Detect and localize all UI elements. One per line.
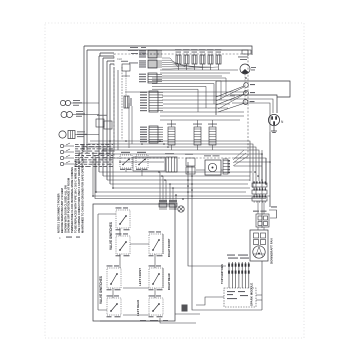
wire	[234, 165, 262, 167]
wire	[71, 102, 99, 104]
wire	[152, 84, 214, 104]
wire	[218, 95, 243, 109]
svg-text:RIGHT REAR: RIGHT REAR	[167, 273, 171, 290]
connector P4	[223, 159, 230, 174]
clock crystal Y1	[121, 61, 130, 76]
oven sensor RT1	[204, 155, 221, 175]
wire	[86, 50, 88, 153]
wire	[152, 89, 198, 112]
wire	[99, 56, 114, 172]
wire	[125, 91, 246, 93]
valve box	[93, 204, 175, 321]
wire	[95, 155, 266, 199]
svg-text:VALVE SWITCHES: VALVE SWITCHES	[99, 276, 103, 304]
wire	[160, 111, 244, 113]
wire	[86, 147, 256, 195]
wire	[100, 314, 200, 323]
wire	[215, 81, 217, 115]
wire	[117, 70, 119, 150]
wire	[256, 295, 262, 300]
labels	[128, 47, 146, 63]
wire	[216, 86, 244, 97]
power plug N	[268, 114, 284, 125]
wire	[196, 169, 223, 171]
wire	[261, 150, 263, 183]
svg-text:MAINTAINED TO CHASSIS GROUND F: MAINTAINED TO CHASSIS GROUND FOR SAFE OP…	[80, 144, 84, 233]
relay contacts K1-K3	[243, 74, 255, 104]
wire	[152, 78, 226, 96]
wire	[87, 50, 248, 56]
wire	[133, 157, 165, 171]
oven light L2	[59, 131, 87, 139]
junctions	[92, 77, 271, 200]
wire	[163, 107, 228, 109]
wire	[121, 67, 123, 140]
wire	[93, 152, 270, 196]
wire	[216, 94, 244, 105]
wire	[196, 297, 224, 305]
grommet	[182, 305, 188, 312]
terminal block TB2	[96, 115, 112, 129]
wire	[107, 179, 250, 181]
svg-text:SPARK MODULE: SPARK MODULE	[250, 283, 254, 306]
relay coils K1-K3	[167, 120, 217, 150]
spark module A2	[224, 283, 256, 307]
surface switch S11 S12	[120, 152, 148, 170]
svg-text:RIGHT FRONT: RIGHT FRONT	[167, 238, 171, 257]
wire	[163, 103, 230, 105]
connector P6 P7	[159, 200, 177, 211]
svg-text:DOWNDRAFT FAN: DOWNDRAFT FAN	[270, 238, 274, 264]
wire	[103, 58, 114, 176]
svg-text:TO BE REPLACED WITH TYPE 150 C: TO BE REPLACED WITH TYPE 150 C 105 C WIR…	[74, 159, 78, 233]
svg-text:TOP IGNITORS: TOP IGNITORS	[220, 264, 224, 284]
svg-text:SHOWN WITH DOOR CLOSED ALL SW: SHOWN WITH DOOR CLOSED ALL SW	[63, 185, 67, 233]
wire	[103, 175, 250, 177]
wire	[73, 114, 100, 116]
wire	[110, 183, 248, 185]
wire	[110, 64, 114, 184]
right rear label	[167, 273, 171, 290]
wire	[230, 95, 277, 113]
wire	[100, 53, 114, 56]
wire	[160, 119, 240, 121]
wire	[258, 201, 264, 230]
svg-text:BEFORE SERVICING UNIT 2 SCHEM: BEFORE SERVICING UNIT 2 SCHEM	[60, 188, 64, 233]
wire	[152, 86, 206, 108]
wire	[216, 87, 244, 101]
valve switches label	[99, 222, 113, 304]
wire	[120, 161, 270, 163]
wire	[160, 115, 244, 117]
right front label	[167, 238, 171, 257]
wire	[99, 158, 266, 183]
wire	[216, 81, 290, 97]
wire	[126, 168, 142, 176]
svg-text:TEMPERATURE CLOCK IN NORMAL MO: TEMPERATURE CLOCK IN NORMAL MODE 3 WIRIN…	[70, 167, 74, 233]
left front label	[138, 268, 142, 286]
downdraft fan B1	[250, 230, 274, 264]
svg-text:LEFT FRONT: LEFT FRONT	[138, 268, 142, 286]
wire	[192, 166, 262, 310]
wire	[125, 76, 127, 96]
resistor R1	[124, 96, 132, 108]
spark ignitors E1-E4	[220, 255, 250, 289]
control board A1	[114, 54, 248, 158]
svg-text:SHOWN IN OFF POSITION RANGE AT: SHOWN IN OFF POSITION RANGE AT ROOM	[67, 178, 71, 233]
wire	[152, 81, 221, 100]
wire	[96, 158, 246, 192]
svg-text:CLK: CLK	[117, 57, 122, 61]
wire	[265, 158, 267, 183]
wire	[113, 150, 250, 188]
notes text	[57, 144, 85, 240]
wire	[162, 75, 222, 77]
wire	[75, 134, 99, 136]
wire	[162, 99, 232, 101]
keyboard switch row S1-S6	[175, 49, 222, 70]
wire	[232, 103, 270, 132]
wire	[160, 69, 238, 71]
air switch S30	[253, 206, 277, 227]
connector P1	[139, 50, 163, 143]
wire	[269, 132, 271, 207]
svg-text:LEFT REAR: LEFT REAR	[136, 299, 140, 316]
wire	[233, 150, 248, 166]
wire	[90, 141, 250, 181]
wire	[162, 58, 218, 69]
wire	[160, 172, 176, 200]
label	[140, 319, 168, 322]
connector P8 P9 P10	[252, 181, 267, 202]
left rear label	[136, 299, 140, 316]
wire	[83, 46, 85, 150]
terminal block TB1	[185, 154, 195, 174]
heater element HE1	[165, 153, 177, 172]
wire	[261, 261, 263, 310]
wire	[88, 144, 253, 188]
wire	[107, 61, 114, 180]
wire	[188, 162, 226, 266]
svg-text:USE COPPER CONDUCTORS ONLY 4 C: USE COPPER CONDUCTORS ONLY 4 CAVITY GROU…	[77, 152, 81, 233]
wire	[123, 244, 149, 315]
wire	[162, 234, 164, 288]
wire	[128, 103, 130, 148]
wire	[99, 171, 252, 173]
wire	[113, 228, 155, 298]
svg-text:VALVE SWITCHES: VALVE SWITCHES	[109, 222, 113, 250]
wire	[231, 99, 273, 113]
oven light L1	[61, 111, 85, 118]
wire	[162, 95, 235, 97]
buzzer BZ1	[238, 50, 256, 74]
wire	[98, 214, 116, 310]
wire	[131, 106, 133, 144]
oven lamp L0	[60, 100, 82, 106]
wire	[113, 67, 115, 150]
svg-text:NOTES 1 DISCONNECT POWER: NOTES 1 DISCONNECT POWER	[57, 193, 61, 233]
ground	[271, 126, 277, 133]
wire	[84, 46, 252, 55]
wire	[103, 150, 259, 181]
valve switches S20-S25	[107, 207, 164, 317]
wire	[160, 72, 230, 74]
wire	[218, 104, 244, 113]
wire	[99, 154, 262, 228]
chassis terminal	[178, 206, 184, 212]
door switch S10	[60, 143, 113, 167]
